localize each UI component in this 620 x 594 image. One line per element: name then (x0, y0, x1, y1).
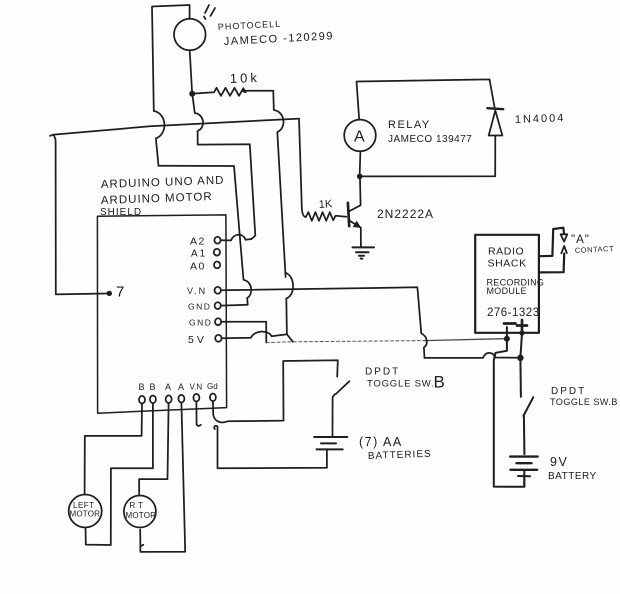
wire GND2 down (221, 322, 266, 343)
module M1 radio shack box (475, 235, 539, 333)
svg-text:TOGGLE SW.: TOGGLE SW. (367, 379, 434, 390)
svg-text:Gd: Gd (207, 382, 218, 391)
svg-text:CONTACT: CONTACT (575, 244, 615, 255)
wire GNDb s-curve to switch (213, 360, 338, 422)
svg-text:A: A (354, 129, 365, 146)
svg-text:JAMECO -120299: JAMECO -120299 (224, 30, 335, 48)
label minus terminal (504, 322, 516, 325)
svg-text:SHACK: SHACK (488, 258, 527, 270)
resistor R2 1K (306, 212, 347, 221)
light ticks (204, 5, 215, 19)
relay loop wires (357, 79, 496, 176)
wire down to A2 feed (159, 166, 252, 305)
ground GND1 (353, 247, 375, 258)
bottom pin A1b (166, 395, 172, 403)
node junction dot (189, 91, 195, 97)
wire to 1K (299, 119, 306, 217)
bottom pin B1 (139, 396, 145, 404)
pin GND (215, 302, 221, 309)
wire VINb stub (196, 402, 200, 426)
switch S2 DPDT lever (523, 397, 533, 416)
wire contact upper (539, 228, 564, 257)
arduino U1 box (97, 215, 226, 413)
pin A2 (214, 237, 220, 244)
svg-text:A: A (178, 382, 184, 392)
svg-text:A2: A2 (190, 236, 206, 248)
wire 10k down with hop (273, 91, 285, 277)
svg-text:MOTOR: MOTOR (70, 510, 101, 519)
bottom pin GNDb (210, 394, 216, 402)
svg-text:DPDT: DPDT (551, 386, 586, 397)
svg-text:10k: 10k (230, 70, 260, 86)
pin A1 (214, 249, 220, 256)
svg-text:BATTERY: BATTERY (548, 471, 597, 482)
node plus vin dot (517, 355, 523, 361)
svg-text:(7) AA: (7) AA (359, 435, 403, 449)
svg-text:SHIELD: SHIELD (100, 207, 142, 218)
svg-text:B: B (139, 382, 145, 392)
wire hop over VIN (285, 273, 293, 335)
motor M-right circle (124, 496, 156, 528)
svg-text:RT: RT (130, 501, 147, 510)
wire plus stem (520, 333, 522, 397)
wire contact lower (539, 254, 564, 273)
svg-text:ARDUINO MOTOR: ARDUINO MOTOR (101, 191, 213, 207)
transistor collector (349, 179, 361, 212)
svg-text:PHOTOCELL: PHOTOCELL (218, 19, 282, 32)
wire switch to AA battery (333, 394, 335, 436)
svg-text:7: 7 (116, 284, 124, 301)
svg-text:RADIO: RADIO (488, 246, 524, 258)
wire motor A top (139, 403, 169, 496)
svg-text:9V: 9V (550, 455, 568, 469)
motor M-left circle (69, 495, 102, 528)
relay K1 coil circle (344, 120, 376, 152)
svg-text:B: B (434, 373, 445, 392)
wire junction to A2 vertical (198, 144, 256, 239)
wire pin7 horizontal (50, 119, 299, 136)
svg-text:V.N: V.N (187, 286, 207, 296)
transistor emitter with arrow (349, 220, 361, 246)
svg-text:A: A (165, 382, 171, 392)
label plus terminal (517, 320, 527, 331)
svg-text:BATTERIES: BATTERIES (368, 449, 432, 462)
wire motor B top (85, 404, 142, 495)
photocell PC1 (174, 19, 206, 51)
svg-text:"A": "A" (571, 234, 590, 246)
transistor Q1 2N2222A base bar (348, 203, 349, 226)
svg-text:B: B (150, 382, 156, 392)
wire hop over pin7 line (154, 111, 165, 166)
pin7 wire left vertical (54, 135, 107, 295)
wire photocell top loop (152, 5, 190, 111)
pin GND2 (215, 318, 221, 325)
svg-text:TOGGLE SW.B: TOGGLE SW.B (550, 397, 618, 407)
node collector dot (357, 174, 363, 180)
node 7 dot (107, 291, 112, 296)
svg-text:A1: A1 (191, 249, 207, 260)
wire A2 with arch over photocell return (221, 235, 252, 241)
pin A0 (214, 262, 220, 269)
svg-text:JAMECO 139477: JAMECO 139477 (388, 134, 472, 145)
pin VIN (215, 287, 221, 294)
pin 5V (215, 335, 221, 342)
svg-text:A0: A0 (190, 261, 206, 273)
svg-text:276-1323: 276-1323 (487, 307, 540, 319)
node plus box dot (519, 330, 524, 335)
svg-text:1K: 1K (318, 198, 333, 211)
svg-text:2N2222A: 2N2222A (377, 207, 434, 221)
svg-text:GND: GND (188, 302, 211, 312)
bottom pin B2 (150, 396, 156, 404)
svg-text:1N4004: 1N4004 (515, 112, 566, 126)
resistor R1 10k (195, 88, 273, 96)
svg-text:RELAY: RELAY (388, 119, 431, 131)
svg-text:5V: 5V (188, 334, 207, 346)
wire minus stem (494, 327, 525, 487)
battery B1 AA pack (314, 436, 347, 438)
wire junction down (193, 97, 203, 145)
svg-text:DPDT: DPDT (365, 367, 400, 378)
diode D1 1N4004 (487, 108, 503, 109)
wire VIN bottom horizontal with hop (425, 353, 518, 358)
battery B2 9V (510, 455, 537, 457)
contact A fixed open triangle (561, 234, 568, 241)
wire VIN long run (221, 287, 427, 358)
switch S1 DPDT lever (336, 381, 350, 394)
contact A moving arrow (561, 246, 567, 253)
svg-text:MODULE: MODULE (487, 286, 527, 296)
svg-text:MOTOR: MOTOR (126, 511, 157, 520)
wire motor A bottom (140, 403, 185, 552)
node minus dot (504, 336, 510, 342)
wire AA return (214, 426, 327, 468)
bottom pin VINb (193, 394, 199, 402)
bottom pin A2b (178, 395, 184, 403)
svg-text:ARDUINO UNO AND: ARDUINO UNO AND (101, 175, 225, 191)
wire to 9V battery (523, 416, 526, 454)
wire 5V long run to module minus (266, 341, 424, 343)
svg-text:GND: GND (189, 318, 212, 328)
svg-text:V.N: V.N (190, 383, 203, 392)
wire photocell bottom (190, 50, 192, 91)
wire GND1 (221, 304, 248, 307)
wire motor B bottom (86, 403, 153, 545)
wire 5V with arch (222, 332, 293, 342)
